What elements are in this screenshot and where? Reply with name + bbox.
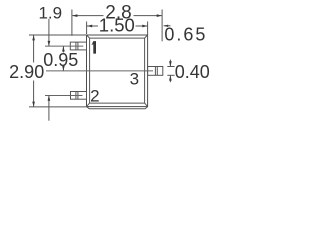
dimension line 1.9 lower tail bbox=[48, 96, 50, 121]
arrowhead 1.50 right bbox=[142, 25, 147, 28]
dimension line 2.8 bbox=[72, 15, 103, 17]
pin 1 (top-left lead) bbox=[70, 42, 86, 50]
extension line 1.50 left bbox=[86, 22, 88, 35]
dimension 0.40 arrow tails bbox=[169, 60, 171, 67]
dimension line 0.95 upper tail bbox=[62, 46, 64, 52]
pin 3 centerline bbox=[46, 70, 153, 72]
extension line 2.8 right bbox=[161, 10, 163, 42]
pin 2 centerline bbox=[45, 94, 83, 96]
svg-text:1.9: 1.9 bbox=[38, 4, 62, 23]
arrowhead 2.90 down bbox=[32, 102, 35, 107]
extension line 2.90 bottom bbox=[29, 106, 87, 108]
svg-text:1.50: 1.50 bbox=[99, 15, 135, 36]
pin label 1 bbox=[92, 41, 97, 54]
arrowhead 0.95 up at pin1 centerline bbox=[62, 46, 65, 51]
svg-text:2: 2 bbox=[90, 87, 99, 106]
package body inner outline (bevel) bbox=[90, 37, 145, 39]
svg-text:3: 3 bbox=[130, 70, 139, 89]
svg-text:0.95: 0.95 bbox=[43, 50, 78, 70]
arrowhead 1.9 down at pin1 centerline bbox=[48, 41, 51, 46]
svg-text:0.65: 0.65 bbox=[164, 25, 207, 45]
extension line 2.90 top bbox=[29, 34, 87, 36]
dimension line 1.50 bbox=[87, 25, 98, 27]
body bottom shadow line bbox=[87, 107, 148, 109]
arrowhead 0.40 down at pin3 top bbox=[169, 61, 172, 66]
pin 2 (bottom-left lead) bbox=[71, 92, 87, 100]
svg-text:0.40: 0.40 bbox=[175, 62, 210, 82]
arrowhead 0.40 up at pin3 bottom bbox=[169, 75, 172, 80]
arrowhead 1.50 left bbox=[87, 25, 92, 28]
arrowhead 0.65 left bbox=[164, 25, 169, 27]
svg-text:2.90: 2.90 bbox=[9, 62, 44, 82]
dimension line 1.9 upper bbox=[48, 19, 50, 46]
dimension line 0.95 lower tail bbox=[62, 66, 64, 71]
dimension 0.40 ticks bbox=[167, 66, 174, 68]
extension line 2.8 left bbox=[71, 10, 73, 36]
pin 3 (right lead) bbox=[148, 67, 163, 76]
extension line 1.50 right bbox=[147, 22, 149, 36]
arrowhead 2.8 right bbox=[157, 14, 162, 17]
arrowhead 2.8 left bbox=[72, 14, 77, 17]
dimension line 0.65 tail bbox=[164, 25, 171, 27]
package body outer outline bbox=[87, 35, 148, 107]
arrowhead 2.90 up bbox=[32, 35, 35, 40]
dimension line 2.90 bbox=[33, 35, 35, 62]
arrowhead 1.9 up at pin2 centerline bbox=[48, 96, 51, 101]
arrowhead 0.95 down at pin3 centerline bbox=[62, 66, 65, 71]
pin 1 centerline bbox=[45, 45, 83, 47]
body corner bevel diagonals bbox=[87, 35, 90, 38]
